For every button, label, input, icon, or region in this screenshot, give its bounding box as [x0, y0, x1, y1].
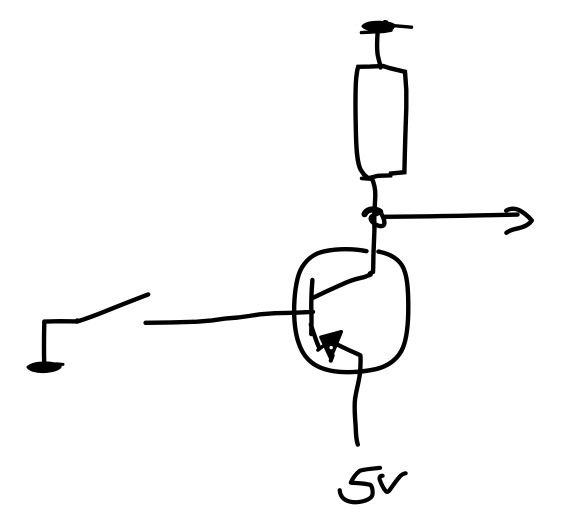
label: 5v [340, 468, 406, 502]
transistor collector stroke (base bar to collector wire) [313, 275, 370, 298]
wire: emitter down to 5v [355, 371, 361, 445]
wire: switch to transistor base [146, 312, 313, 323]
wire: node to transistor collector [370, 227, 375, 273]
power rail symbol (scribbled supply bar at top) [361, 22, 411, 33]
wire: ground riser [42, 323, 47, 364]
switch lever (open) [77, 294, 148, 321]
arrowhead of output [506, 209, 532, 233]
transistor base bar [311, 280, 312, 334]
node: output junction loop (knot) [365, 210, 381, 215]
transistor emitter arrow (filled scribble triangle, pointing to base) [321, 332, 341, 358]
resistor R1 body [355, 66, 406, 178]
wire: output line to the right [383, 215, 518, 217]
resistor bottom-left tail stroke [362, 177, 372, 181]
wire: emitter arrow to bottom corner [338, 345, 361, 371]
transistor Q1 (PNP) body circle [294, 249, 408, 372]
switch pivot dot [75, 318, 80, 323]
ground symbol (left, filled pad) [28, 363, 61, 372]
wire: resistor to output node [372, 178, 376, 227]
transistor emitter stroke (from base bar, under arrow) [311, 325, 319, 348]
wire: ground riser top horizontal [44, 319, 77, 324]
wire: rail to resistor top [377, 31, 381, 68]
